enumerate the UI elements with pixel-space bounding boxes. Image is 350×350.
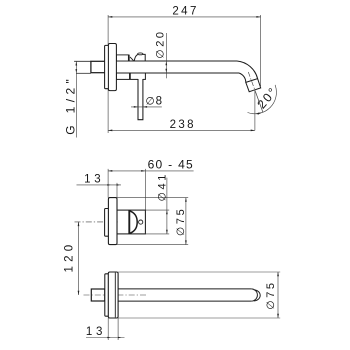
wire 13 extension lines (lower) xyxy=(107,318,109,340)
flange plate A xyxy=(105,45,110,88)
aerator tip xyxy=(246,79,261,92)
wire 247 dimension line xyxy=(108,16,261,18)
spout bend outer xyxy=(237,61,258,79)
wire diam41 dimension line xyxy=(166,178,168,234)
svg-text:247: 247 xyxy=(172,5,198,17)
svg-text:13: 13 xyxy=(86,326,106,338)
spout tube plan xyxy=(118,288,251,290)
svg-text:G 1/2": G 1/2" xyxy=(64,75,78,135)
angle arc 20deg xyxy=(248,85,277,114)
wire diam75 extension lines (lower) xyxy=(118,271,280,273)
collar xyxy=(116,55,128,61)
wire 60-45 dimension line xyxy=(108,170,194,172)
axis center line xyxy=(75,221,119,223)
wire 13 dimension (upper) xyxy=(77,184,122,186)
escutcheon plate B xyxy=(108,272,118,318)
wire diam75 dimension line xyxy=(185,198,187,245)
wire diam75 extension lines xyxy=(117,197,188,199)
svg-text:∅41: ∅41 xyxy=(156,172,168,201)
tip cap outer arc xyxy=(254,290,260,301)
svg-text:∅75: ∅75 xyxy=(265,280,277,309)
axis center line xyxy=(84,294,149,296)
escutcheon lip A xyxy=(105,274,110,316)
escutcheon plate B xyxy=(108,198,117,245)
spout bend inner xyxy=(239,73,246,82)
escutcheon lip A xyxy=(105,209,110,237)
wire diam8 leader dimension xyxy=(131,106,162,108)
wire extension x145 xyxy=(144,169,146,210)
svg-text:∅20: ∅20 xyxy=(154,29,166,58)
cartridge cap xyxy=(134,54,145,61)
wire diam41 extension lines xyxy=(145,209,169,211)
wire diam20 dimension line xyxy=(165,33,167,78)
tip cap inner arc xyxy=(251,289,257,301)
svg-text:120: 120 xyxy=(63,241,75,273)
wire wall extension line xyxy=(107,15,109,133)
wire 13 dimension line (lower) xyxy=(86,337,125,339)
wire 247 right extension line xyxy=(260,15,262,86)
svg-text:∅75: ∅75 xyxy=(175,207,187,236)
square wrench section xyxy=(91,61,106,72)
svg-text:∅8: ∅8 xyxy=(145,96,162,108)
knob lens xyxy=(128,211,130,234)
pin circle xyxy=(139,220,143,224)
tip center line xyxy=(248,72,255,91)
wire G1/2 dimension line xyxy=(75,61,77,137)
svg-text:13: 13 xyxy=(84,174,104,186)
cartridge housing xyxy=(117,210,145,234)
wire 120 dimension line xyxy=(78,222,80,295)
wire 238 dimension line xyxy=(108,129,255,131)
svg-text:238: 238 xyxy=(170,119,196,131)
square inlet stub xyxy=(91,289,105,301)
escutcheon inner edge xyxy=(114,273,116,318)
wire diam75 dimension line (lower) xyxy=(277,272,279,318)
lower housing xyxy=(116,73,145,79)
threaded nipple G1/2 xyxy=(74,60,91,62)
wire extension x116 xyxy=(116,183,118,198)
svg-text:60 - 45: 60 - 45 xyxy=(148,158,194,172)
wire extension x108 xyxy=(107,169,109,198)
flange plate B xyxy=(108,44,116,91)
lever rod xyxy=(138,74,143,120)
notch diagonal xyxy=(130,57,134,61)
wire tip vertical extension xyxy=(254,90,256,130)
spout tube xyxy=(116,60,237,62)
